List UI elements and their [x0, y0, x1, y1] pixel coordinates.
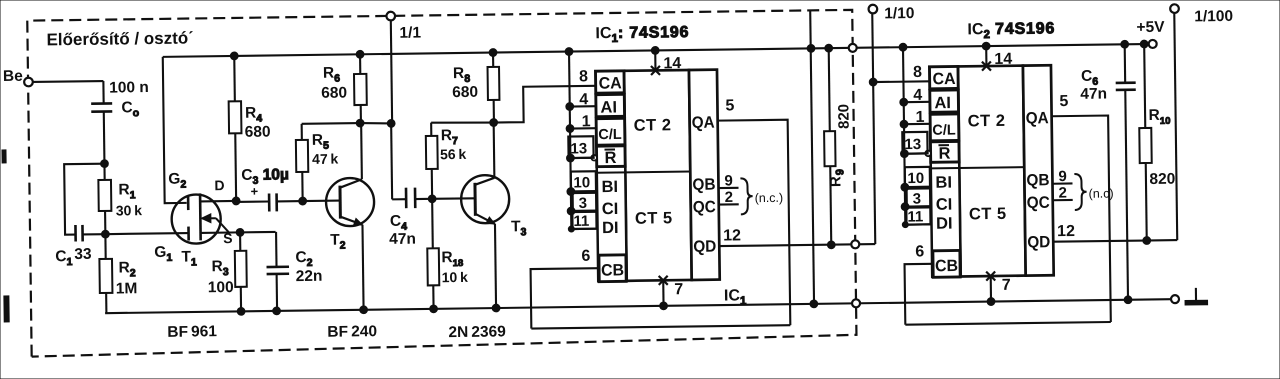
IC2 pin 13 stub	[904, 152, 925, 154]
svg-text:(n.c.): (n.c.)	[755, 191, 784, 205]
svg-text:3: 3	[579, 195, 588, 212]
svg-text:CB: CB	[601, 261, 624, 279]
IC2 supply bus top dot	[899, 43, 907, 51]
capacitor C0 100n	[103, 103, 105, 105]
IC2 pin 1 stub	[904, 123, 930, 125]
IC2 pin box CA	[929, 66, 958, 88]
node R1/R2/G1	[101, 230, 109, 238]
IC1 lower-left extension box	[597, 166, 627, 281]
resistor R5 47k	[301, 124, 303, 140]
T2 emitter wire to ground	[362, 225, 363, 310]
svg-text:8: 8	[579, 68, 588, 85]
svg-text:BF 240: BF 240	[327, 323, 377, 341]
IC2 CB wire	[905, 264, 934, 325]
svg-text:820: 820	[1149, 171, 1175, 188]
svg-text:11: 11	[573, 213, 589, 230]
svg-text:30 k: 30 k	[116, 202, 143, 218]
svg-text:CB: CB	[935, 257, 958, 275]
T1 drain lead	[200, 200, 236, 203]
resistor R2 1M	[104, 234, 106, 259]
IC2 output column box	[1023, 65, 1054, 275]
svg-text:QA: QA	[692, 114, 715, 132]
IC1 pin 7 line	[662, 280, 664, 305]
svg-text:QD: QD	[693, 238, 716, 256]
svg-text:8: 8	[913, 64, 922, 81]
border crossing circle on QD line	[851, 240, 859, 248]
IC1 output column box	[689, 70, 720, 280]
svg-text:2N 2369: 2N 2369	[448, 323, 506, 341]
svg-text:13: 13	[904, 136, 921, 153]
transistor T2 BF240	[326, 178, 375, 227]
svg-text:BI: BI	[935, 174, 952, 192]
IC1 pin box R-bar (reset)	[596, 146, 625, 167]
IC1 pin box AI	[596, 94, 625, 116]
IC1 pin 14 line	[654, 50, 656, 70]
svg-text:CT 5: CT 5	[635, 209, 673, 227]
IC1 QD pin12 output wire (1/10 net)	[719, 244, 875, 246]
svg-text:680: 680	[245, 123, 271, 140]
svg-text:+5V: +5V	[1136, 19, 1165, 36]
svg-text:S: S	[223, 230, 233, 246]
node C0/R1	[101, 160, 109, 168]
svg-text:DI: DI	[936, 215, 953, 233]
clock wire T3 collector to IC1 CA pin 8	[493, 86, 596, 123]
node 1/10 to IC2 clock	[869, 78, 877, 86]
svg-text:Be: Be	[3, 68, 23, 85]
svg-text:1M: 1M	[116, 280, 138, 297]
svg-text:22n: 22n	[296, 268, 323, 285]
IC1 pin 3 stub (CI)	[571, 210, 597, 212]
ground symbol	[1195, 288, 1197, 301]
svg-text:CI: CI	[602, 200, 619, 218]
wire G1	[105, 233, 188, 234]
svg-text:47n: 47n	[389, 231, 416, 248]
wire to IC2 CA pin 8	[873, 80, 929, 83]
svg-text:5: 5	[725, 97, 734, 114]
IC2 pin box AI	[930, 90, 959, 112]
terminal 1/1 with line down to C4 node	[386, 12, 395, 21]
MOSFET T1 BF961 dual gate	[171, 194, 221, 244]
svg-text:CI: CI	[936, 196, 953, 214]
IC2 pin 7 clock wedge	[986, 271, 995, 280]
svg-text:2: 2	[1059, 185, 1068, 202]
IC1 CT2/CT5 divider line	[597, 171, 718, 173]
IC2 supply bus to preset pins	[903, 47, 905, 224]
IC2 pin 11 stub (DI)	[905, 223, 931, 225]
IC2 pin box C/L	[930, 114, 959, 141]
IC2 pin 13 number box	[902, 132, 927, 154]
1/100 net vertical to terminal	[1174, 13, 1177, 240]
svg-text:QA: QA	[1026, 109, 1049, 127]
svg-text:13: 13	[570, 140, 587, 157]
svg-text:680: 680	[452, 84, 478, 101]
border crossing circle on supply rail	[849, 44, 857, 52]
scan smudge left edge	[2, 150, 6, 163]
svg-text:7: 7	[674, 281, 683, 298]
svg-text:56 k: 56 k	[440, 146, 467, 162]
svg-text:AI: AI	[600, 98, 617, 116]
IC1 74S196 counter main box	[624, 70, 692, 281]
terminal Be	[24, 78, 33, 87]
svg-text:R: R	[938, 145, 950, 163]
svg-text:DI: DI	[602, 219, 619, 237]
svg-text:D: D	[214, 177, 224, 193]
node R6/collector/C4	[356, 119, 364, 127]
svg-text:820: 820	[835, 104, 852, 129]
capacitor C2 22n	[275, 232, 278, 267]
svg-text:10 k: 10 k	[442, 269, 469, 285]
svg-text:R: R	[605, 149, 617, 167]
IC2 pin 10 stub (BI)	[905, 186, 931, 188]
svg-text:QD: QD	[1027, 233, 1050, 251]
IC2 QA pin5 wire to CB feedback	[1052, 116, 1111, 323]
svg-text:BF 961: BF 961	[167, 323, 217, 341]
svg-text:QB: QB	[1026, 171, 1049, 189]
IC2 74S196 counter main box	[958, 66, 1026, 277]
IC1 supply bus to preset pins	[569, 52, 571, 229]
node C4 branch	[387, 119, 395, 127]
IC2 pin 14 line	[985, 46, 987, 66]
node T3 base / R7 / R18	[428, 195, 436, 203]
IC1 pin 10 number box	[571, 171, 596, 191]
wire C4 to T3 base	[432, 197, 475, 200]
svg-text:9: 9	[724, 172, 733, 189]
vertical line from top border to ground (screen)	[810, 10, 814, 303]
IC2 CT2/CT5 divider line	[931, 167, 1052, 169]
svg-text:11: 11	[907, 208, 923, 225]
svg-text:Előerősítő / osztóˊ: Előerősítő / osztóˊ	[46, 28, 194, 49]
dashed enclosure box (preamp/divider)	[27, 10, 856, 357]
IC1 CB wire	[531, 268, 600, 328]
IC1 pin 11 stub (DI)	[571, 228, 597, 230]
terminal 1/100	[1170, 4, 1179, 13]
IC1 pin 13 stub	[570, 157, 591, 159]
resistor R1 30k	[103, 164, 105, 180]
svg-text:12: 12	[723, 227, 741, 244]
ground rail	[105, 299, 1171, 313]
resistor R4 680	[233, 56, 236, 101]
IC1 pin 4 stub	[570, 105, 596, 107]
node T2 base / R5 / C3	[299, 197, 307, 205]
wire G2 to supply rail	[163, 57, 187, 204]
wire S node to C2	[240, 231, 275, 234]
IC2 pin 9 stub QB	[1052, 182, 1072, 184]
IC1 pin 13 number box	[568, 136, 593, 158]
+5V supply rail	[163, 44, 1153, 57]
border crossing circle on ground rail	[852, 299, 860, 307]
svg-text:680: 680	[321, 84, 347, 101]
svg-text:1: 1	[916, 109, 925, 126]
IC2 reset inversion bubble pin 13	[925, 151, 931, 157]
svg-text:1/1: 1/1	[399, 24, 421, 41]
T3 collector wire	[493, 123, 496, 178]
svg-text:1: 1	[582, 113, 591, 130]
svg-text:2: 2	[725, 189, 734, 206]
capacitor C3 10u electrolytic	[236, 200, 269, 203]
IC2 pin 14 clock wedge	[982, 62, 991, 71]
svg-text:C/L: C/L	[598, 127, 622, 143]
svg-text:BI: BI	[601, 178, 618, 196]
wire R7 top to collector node	[431, 122, 494, 124]
svg-text:4: 4	[579, 91, 588, 108]
svg-text:+: +	[250, 184, 258, 199]
svg-text:47n: 47n	[1080, 86, 1107, 103]
svg-text:4: 4	[913, 87, 922, 104]
ground rail end terminal	[1171, 295, 1179, 303]
IC2 lower-left extension box	[931, 162, 961, 277]
svg-text:3: 3	[913, 190, 922, 207]
svg-text:CT 5: CT 5	[969, 205, 1007, 223]
T3 emitter wire to ground	[495, 224, 496, 308]
IC1 reset inversion bubble pin 13	[591, 155, 597, 161]
svg-text:14: 14	[994, 51, 1012, 68]
IC2 pin box CB	[933, 250, 960, 277]
svg-text:7: 7	[1002, 277, 1011, 294]
IC1 pin 2 stub QC	[719, 203, 739, 205]
transistor T3 2N2369	[461, 175, 510, 224]
feedback wire to C1	[64, 164, 105, 235]
terminal 1/10	[869, 5, 878, 14]
svg-text:10: 10	[907, 170, 924, 187]
svg-text:6: 6	[915, 243, 924, 260]
capacitor C4 47n	[392, 198, 406, 200]
resistor R3 100	[239, 232, 241, 250]
resistor R8 680	[492, 53, 494, 67]
IC1 supply bus top dot	[565, 48, 573, 56]
IC2 pin 2 stub QC	[1053, 199, 1073, 201]
IC1 brace for n.c. outputs	[740, 178, 752, 214]
wire Be to C0	[33, 80, 104, 83]
T1 substrate arrow	[202, 217, 216, 219]
IC1 pin 9 stub QB	[719, 187, 739, 189]
IC1 pin 10 stub (BI)	[571, 190, 597, 192]
svg-text:6: 6	[581, 248, 590, 265]
node R8/R7/collector/clock	[490, 119, 498, 127]
IC2 QD pin12 output wire (1/100 net)	[1053, 240, 1177, 242]
resistor R7 56k	[430, 123, 432, 136]
svg-text:1/100: 1/100	[1194, 8, 1233, 26]
resistor R18 10k	[431, 199, 434, 248]
svg-text:QC: QC	[693, 198, 716, 216]
svg-text:100 n: 100 n	[109, 79, 149, 97]
wire C3 to T2 base	[303, 200, 340, 203]
IC1 pin box C/L	[596, 118, 625, 145]
IC2 pin 3 number box	[907, 188, 931, 206]
wire down to C4	[390, 123, 393, 199]
node D	[232, 197, 240, 205]
IC1 pin box CA	[595, 71, 624, 93]
resistor R10 820 pull-up	[1144, 44, 1145, 128]
IC1 pin 11 number box	[572, 212, 596, 229]
IC1 pin 3 number box	[573, 193, 597, 211]
IC2 pin 3 stub (CI)	[905, 205, 931, 207]
svg-text:C/L: C/L	[932, 123, 956, 139]
IC2 brace for n.c. outputs	[1074, 174, 1086, 210]
IC1 feedback bottom wire	[531, 325, 790, 328]
IC1 pin 14 clock wedge	[651, 66, 660, 75]
1/10 net vertical to terminal	[872, 13, 875, 244]
svg-text:47 k: 47 k	[312, 151, 339, 167]
svg-text:12: 12	[1057, 223, 1075, 240]
capacitor C1 33	[74, 225, 77, 241]
svg-text:CA: CA	[933, 70, 956, 88]
T1 source lead	[201, 231, 240, 234]
svg-text:100: 100	[208, 279, 234, 296]
IC2 pin 7 line	[990, 276, 992, 301]
capacitor C6 47n decoupling	[1124, 44, 1127, 82]
IC1 QA pin5 wire to CB feedback	[718, 120, 791, 326]
svg-text:10: 10	[573, 174, 590, 191]
svg-text:5: 5	[1059, 93, 1068, 110]
IC1 pin 7 clock wedge	[659, 276, 668, 285]
IC1 pin 1 stub	[570, 127, 596, 129]
IC2 pin 10 number box	[905, 167, 930, 187]
resistor R9 820 pull-up	[829, 48, 830, 131]
resistor R6 680	[359, 54, 361, 74]
svg-text:AI: AI	[934, 94, 951, 112]
IC2 pin 4 stub	[904, 101, 930, 103]
svg-text:1/10: 1/10	[884, 5, 914, 22]
IC2 pin 11 number box	[906, 207, 930, 224]
svg-text:CA: CA	[599, 74, 622, 92]
IC2 feedback bottom wire	[905, 322, 1110, 325]
svg-text:QC: QC	[1027, 194, 1050, 212]
svg-text:9: 9	[1058, 168, 1067, 185]
svg-text:CT 2: CT 2	[968, 112, 1006, 130]
svg-text:QB: QB	[692, 176, 715, 194]
terminal +5V	[1149, 40, 1157, 48]
IC1 pin box CB	[599, 255, 626, 282]
wire R5 top to R6 bottom node	[302, 122, 360, 125]
svg-text:14: 14	[663, 55, 681, 72]
svg-text:CT 2: CT 2	[634, 116, 672, 134]
svg-text:33: 33	[74, 246, 92, 263]
T2 collector wire	[360, 123, 363, 179]
IC2 pin box R-bar (reset)	[930, 141, 959, 162]
